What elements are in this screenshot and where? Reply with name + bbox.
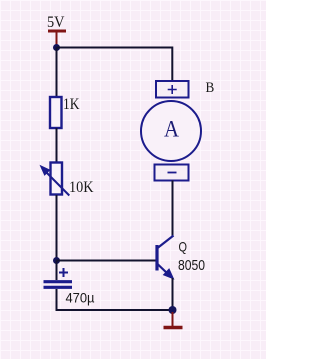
wire: cap lower stem and bottom horizontal [57,289,173,310]
node: 5V junction [53,44,60,51]
potentiometer RP 10K [41,163,69,196]
transistor Q 8050 [157,236,174,279]
wire: base horizontal to transistor [57,260,156,262]
node: base junction [53,257,60,264]
motor body (ammeter circle A) [141,101,201,161]
capacitor C1 470u [44,261,73,288]
svg-text:10K: 10K [69,179,94,196]
wire: left vertical from 5V node down to R1 [56,48,58,98]
motor minus terminal box [155,165,189,181]
svg-text:5V: 5V [47,14,65,31]
power +5V rail symbol [48,31,66,45]
wire: R1 to potentiometer [56,128,58,162]
wire: potentiometer down to base node [56,195,58,261]
svg-text:A: A [164,117,179,142]
resistor R1 1K [50,97,62,128]
ground symbol [164,312,183,328]
svg-text:470µ: 470µ [66,290,95,306]
motor B plus terminal box [156,81,189,98]
wire: top horizontal from 5V node then down to motor [57,48,173,82]
svg-text:1K: 1K [63,96,80,113]
svg-text:8050: 8050 [178,257,205,274]
node: ground junction [169,306,177,314]
svg-text:B: B [206,80,215,96]
svg-text:Q: Q [179,239,188,255]
wire: motor to collector [172,181,174,237]
wire: emitter down to ground node [172,278,174,310]
